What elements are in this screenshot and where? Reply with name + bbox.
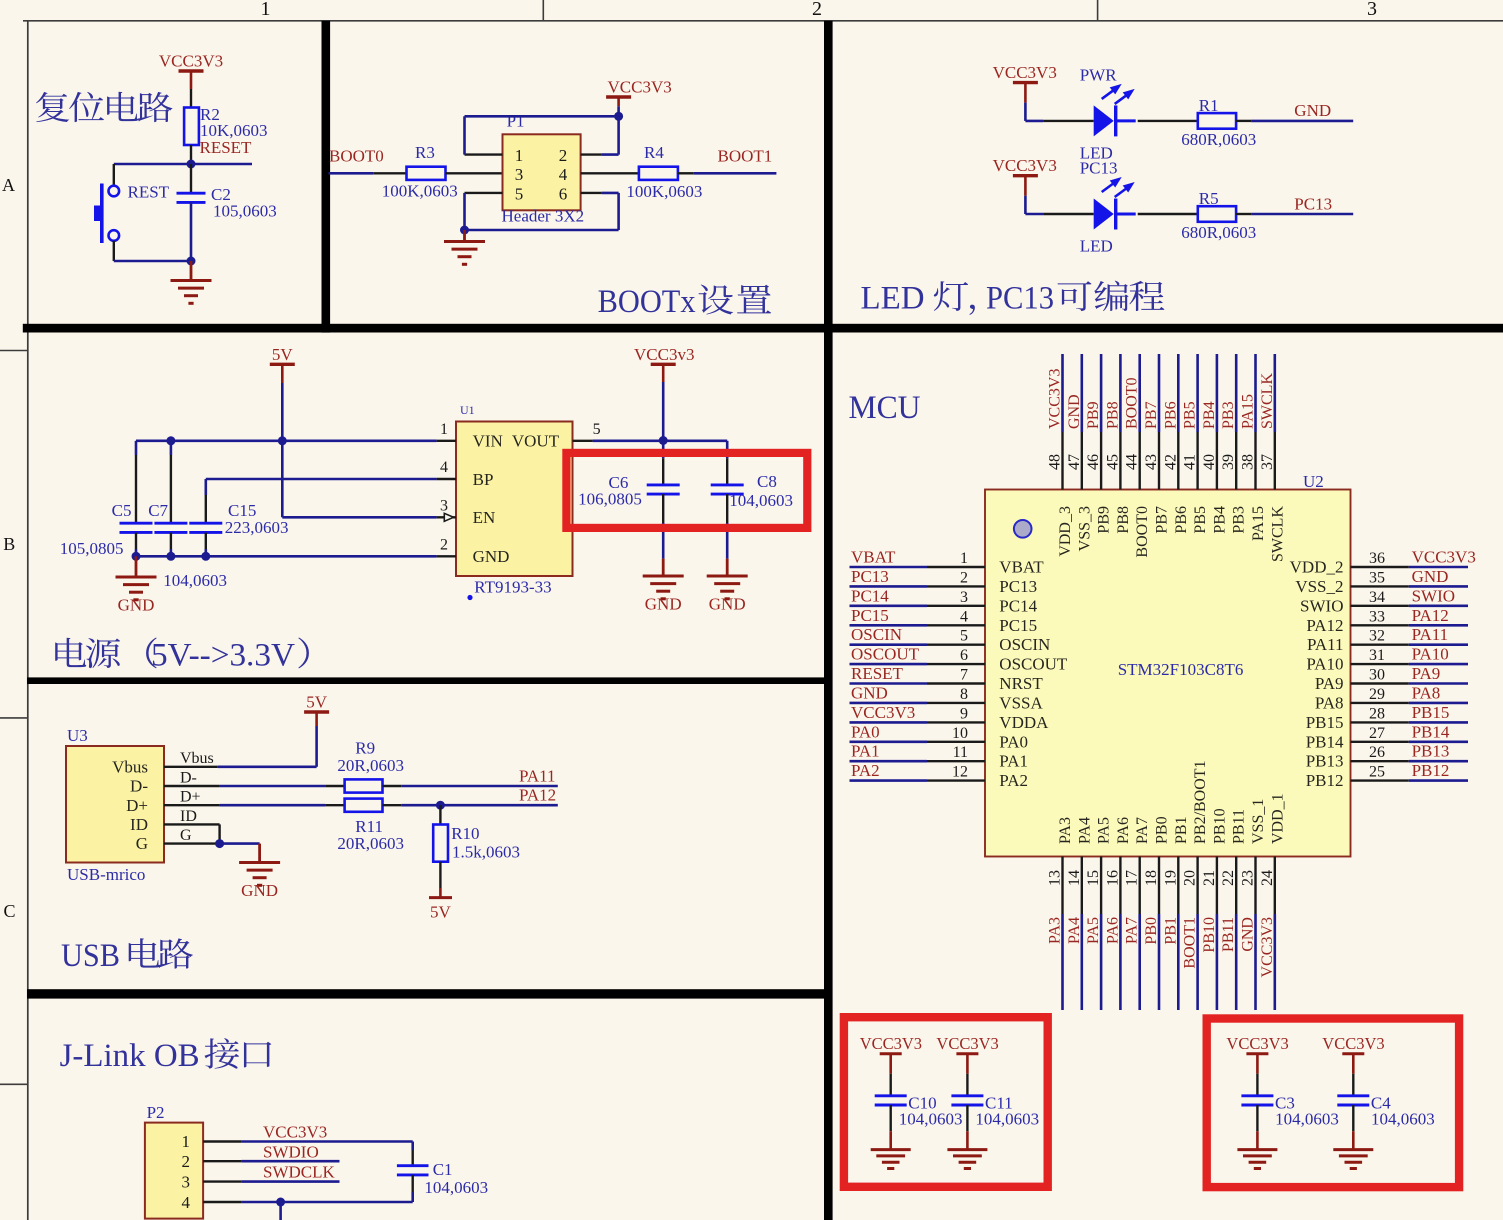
svg-text:Vbus: Vbus <box>112 757 148 776</box>
wire <box>220 842 260 845</box>
svg-text:PA6: PA6 <box>1115 817 1132 844</box>
svg-text:PB7: PB7 <box>1143 401 1160 429</box>
ground (C11) <box>947 1131 987 1168</box>
svg-text:PA12: PA12 <box>519 786 556 805</box>
svg-text:BOOTx: BOOTx <box>598 284 696 320</box>
svg-text:2: 2 <box>960 569 968 586</box>
svg-text:14: 14 <box>1066 870 1083 886</box>
svg-text:PB15: PB15 <box>1412 703 1450 722</box>
svg-text:8: 8 <box>960 686 968 703</box>
capacitor C5 <box>60 441 153 558</box>
svg-text:GND: GND <box>1066 394 1083 429</box>
svg-text:680R,0603: 680R,0603 <box>1181 223 1256 242</box>
wire net PA8 (right pin 29) <box>1351 702 1469 704</box>
svg-text:GND: GND <box>851 683 888 702</box>
svg-text:VCC3V3: VCC3V3 <box>1259 917 1276 977</box>
svg-text:OSCOUT: OSCOUT <box>851 645 920 664</box>
svg-text:PA1: PA1 <box>999 752 1028 771</box>
svg-text:18: 18 <box>1143 870 1160 886</box>
svg-text:GND: GND <box>241 881 278 900</box>
wire <box>190 89 192 108</box>
svg-text:17: 17 <box>1124 870 1141 886</box>
svg-text:PC15: PC15 <box>999 616 1037 635</box>
resistor R4 <box>626 143 702 201</box>
svg-text:PB7: PB7 <box>1154 506 1171 534</box>
svg-text:VCC3V3: VCC3V3 <box>1322 1034 1384 1053</box>
svg-text:C8: C8 <box>757 472 777 491</box>
svg-text:PB4: PB4 <box>1201 401 1218 429</box>
svg-text:PA8: PA8 <box>1412 683 1441 702</box>
wire net GND (bottom pin 23) <box>1254 857 1256 1011</box>
svg-text:J-Link OB: J-Link OB <box>60 1038 200 1074</box>
svg-text:4: 4 <box>182 1193 191 1212</box>
wire net PB6 (top pin 42) <box>1177 354 1180 490</box>
svg-text:21: 21 <box>1201 870 1218 886</box>
wire net VCC3V3 (top pin 48) <box>1061 354 1064 490</box>
svg-text:G: G <box>180 827 192 844</box>
wire PC13 <box>1251 213 1353 216</box>
svg-text:VDD_2: VDD_2 <box>1290 558 1344 577</box>
svg-text:PB15: PB15 <box>1306 713 1344 732</box>
svg-text:PB12: PB12 <box>1412 761 1450 780</box>
svg-text:PB14: PB14 <box>1306 732 1344 751</box>
svg-text:ID: ID <box>130 815 148 834</box>
svg-text:PA1: PA1 <box>851 742 880 761</box>
svg-text:VSS_3: VSS_3 <box>1076 506 1093 551</box>
svg-text:SWCLK: SWCLK <box>1269 506 1286 562</box>
svg-text:Vbus: Vbus <box>180 750 214 767</box>
junction <box>460 226 469 235</box>
resistor R9 <box>337 739 404 793</box>
svg-text:40: 40 <box>1201 454 1218 470</box>
svg-text:PB10: PB10 <box>1201 917 1218 953</box>
svg-text:OSCIN: OSCIN <box>999 635 1050 654</box>
svg-text:28: 28 <box>1369 705 1385 722</box>
svg-text:VCC3v3: VCC3v3 <box>634 345 694 364</box>
svg-text:SWDCLK: SWDCLK <box>263 1163 336 1182</box>
svg-text:38: 38 <box>1240 454 1257 470</box>
wire <box>1236 213 1251 215</box>
wire net VCC3V3 (right pin 36) <box>1351 566 1469 568</box>
svg-text:VSS_2: VSS_2 <box>1295 577 1343 596</box>
svg-text:42: 42 <box>1162 454 1179 470</box>
power VCC3v3 (B) <box>634 345 694 441</box>
svg-text:1: 1 <box>960 550 968 567</box>
wire net PB15 (right pin 28) <box>1351 721 1469 723</box>
wire net PA11 (right pin 32) <box>1351 644 1469 646</box>
svg-text:1: 1 <box>515 146 524 165</box>
wire net PB11 (bottom pin 22) <box>1235 857 1237 1011</box>
svg-text:U1: U1 <box>460 403 475 417</box>
wire <box>1043 213 1094 215</box>
svg-text:PB0: PB0 <box>1143 917 1160 945</box>
svg-text:3: 3 <box>182 1173 191 1192</box>
section divider vertical top <box>322 21 331 333</box>
svg-text:SWIO: SWIO <box>1412 586 1455 605</box>
wire GND <box>1251 120 1353 123</box>
svg-text:VCC3V3: VCC3V3 <box>1047 369 1064 429</box>
svg-text:GND: GND <box>118 596 155 615</box>
junction <box>215 839 224 848</box>
wire net VCC3V3 (left pin 9) <box>850 721 986 724</box>
svg-text:PA10: PA10 <box>1306 655 1343 674</box>
junction <box>276 1198 285 1207</box>
wire PA12 <box>383 804 558 806</box>
power VCC3V3 (C11) <box>936 1034 998 1074</box>
wire SWDCLK <box>241 1180 339 1183</box>
wire VCC3V3 <box>241 1140 412 1143</box>
svg-text:PB11: PB11 <box>1231 809 1248 844</box>
header P2 <box>145 1103 203 1219</box>
header P1 <box>502 112 585 226</box>
svg-text:26: 26 <box>1369 744 1385 761</box>
junction <box>187 257 196 266</box>
wire net SWIO (right pin 34) <box>1351 605 1469 607</box>
wire net PA4 (bottom pin 14) <box>1081 857 1083 1011</box>
svg-text:REST: REST <box>128 183 170 202</box>
resistor R5 <box>1181 189 1256 242</box>
junction <box>201 552 210 561</box>
junction <box>278 436 287 445</box>
svg-text:PB2/BOOT1: PB2/BOOT1 <box>1192 760 1209 844</box>
wire top rail <box>136 439 437 442</box>
svg-text:PA3: PA3 <box>1057 817 1074 844</box>
svg-text:VCC3V3: VCC3V3 <box>936 1034 998 1053</box>
svg-text:BOOT0: BOOT0 <box>1124 377 1141 429</box>
wire <box>373 172 406 174</box>
svg-text:PA2: PA2 <box>999 771 1028 790</box>
title USB电路 <box>61 938 193 974</box>
svg-text:R10: R10 <box>451 824 479 843</box>
power VCC3V3 (boot) <box>606 78 672 117</box>
wire down <box>279 1202 282 1220</box>
wire net PB8 (top pin 45) <box>1119 354 1122 490</box>
svg-text:A: A <box>2 175 15 195</box>
IC U3 USB-mrico <box>66 726 164 884</box>
svg-text:PA2: PA2 <box>851 761 880 780</box>
svg-text:Header 3X2: Header 3X2 <box>502 207 585 226</box>
svg-text:PA5: PA5 <box>1085 917 1102 944</box>
svg-text:GND: GND <box>1294 101 1331 120</box>
svg-text:3: 3 <box>440 498 448 515</box>
svg-text:13: 13 <box>1047 870 1064 886</box>
title LED灯，PC13可编程 <box>861 281 1165 317</box>
svg-text:PA0: PA0 <box>999 732 1028 751</box>
svg-text:PC13: PC13 <box>999 577 1037 596</box>
svg-text:LED: LED <box>1080 237 1113 256</box>
svg-text:104,0603: 104,0603 <box>729 491 793 510</box>
svg-text:15: 15 <box>1085 870 1102 886</box>
svg-text:VCC3V3: VCC3V3 <box>993 156 1057 175</box>
svg-text:2: 2 <box>182 1152 191 1171</box>
svg-text:PA7: PA7 <box>1124 917 1141 944</box>
wire net VCC3V3 (bottom pin 24) <box>1274 857 1276 1011</box>
svg-text:9: 9 <box>960 705 968 722</box>
wire net PA7 (bottom pin 17) <box>1138 857 1140 1011</box>
svg-text:VCC3V3: VCC3V3 <box>608 78 672 97</box>
svg-text:PA7: PA7 <box>1134 817 1151 844</box>
svg-text:1.5k,0603: 1.5k,0603 <box>452 843 520 862</box>
ground (C5 rail) <box>116 556 157 614</box>
svg-text:PB11: PB11 <box>1220 917 1237 952</box>
wire vcc loop <box>465 116 619 154</box>
wire net PC14 (left pin 3) <box>850 604 986 607</box>
svg-text:OSCIN: OSCIN <box>851 625 902 644</box>
wire <box>190 202 193 261</box>
svg-text:VCC3V3: VCC3V3 <box>263 1123 327 1142</box>
svg-text:20R,0603: 20R,0603 <box>337 834 404 853</box>
wire net PB9 (top pin 46) <box>1100 354 1103 490</box>
svg-text:12: 12 <box>952 764 968 781</box>
svg-text:5: 5 <box>593 421 601 438</box>
svg-text:5V-->3.3V: 5V-->3.3V <box>151 638 295 674</box>
svg-text:D-: D- <box>180 769 197 786</box>
wire net PB10 (bottom pin 21) <box>1216 857 1218 1011</box>
svg-text:PA3: PA3 <box>1047 917 1064 944</box>
svg-text:GND: GND <box>473 547 510 566</box>
svg-text:R9: R9 <box>355 739 375 758</box>
wire net PB7 (top pin 43) <box>1158 354 1161 490</box>
svg-text:31: 31 <box>1369 647 1385 664</box>
wire D+ <box>164 804 345 806</box>
svg-text:10: 10 <box>952 725 968 742</box>
wire BP rail <box>206 479 437 495</box>
pin stubs P1 <box>465 155 639 193</box>
title 复位电路 <box>36 92 173 122</box>
svg-text:43: 43 <box>1143 454 1160 470</box>
wire net PB14 (right pin 27) <box>1351 741 1469 743</box>
svg-text:R3: R3 <box>415 143 435 162</box>
ground (reset) <box>171 261 212 303</box>
svg-text:1: 1 <box>182 1132 191 1151</box>
wire <box>678 172 693 174</box>
svg-text:25: 25 <box>1369 764 1385 781</box>
svg-text:6: 6 <box>559 184 568 203</box>
svg-text:PC13: PC13 <box>851 567 889 586</box>
power VCC3V3 (C3) <box>1226 1034 1288 1074</box>
svg-text:20: 20 <box>1182 870 1199 886</box>
svg-text:PC14: PC14 <box>999 596 1037 615</box>
svg-text:104,0603: 104,0603 <box>424 1178 488 1197</box>
wire <box>1025 120 1043 123</box>
wire net SWCLK (top pin 37) <box>1274 354 1277 490</box>
svg-text:PB8: PB8 <box>1115 506 1132 534</box>
svg-text:34: 34 <box>1369 589 1385 606</box>
svg-text:R1: R1 <box>1199 96 1219 115</box>
section divider horizontal mid-left <box>27 677 828 684</box>
svg-text:PB5: PB5 <box>1192 506 1209 534</box>
capacitor C8 <box>711 441 793 559</box>
svg-text:PB3: PB3 <box>1231 506 1248 534</box>
svg-text:GND: GND <box>1240 917 1257 952</box>
wire net GND (top pin 47) <box>1081 354 1084 490</box>
svg-text:37: 37 <box>1259 454 1276 470</box>
svg-text:VOUT: VOUT <box>512 432 560 451</box>
wire net PA2 (left pin 12) <box>850 779 986 782</box>
svg-text:39: 39 <box>1220 454 1237 470</box>
svg-text:PC13: PC13 <box>1294 194 1332 213</box>
svg-text:106,0805: 106,0805 <box>578 490 642 509</box>
svg-text:5: 5 <box>515 184 524 203</box>
power VCC3V3 (C10) <box>860 1034 922 1074</box>
svg-text:PA15: PA15 <box>1240 394 1257 429</box>
svg-text:D-: D- <box>130 777 148 796</box>
svg-text:PC15: PC15 <box>851 606 889 625</box>
svg-text:VSS_1: VSS_1 <box>1250 799 1267 844</box>
svg-text:C1: C1 <box>433 1160 453 1179</box>
title BOOTx设置 <box>598 284 771 320</box>
power VCC3V3 (C4) <box>1322 1034 1384 1074</box>
svg-text:680R,0603: 680R,0603 <box>1181 130 1256 149</box>
EN arrow <box>444 513 453 521</box>
highlight box C6 C8 <box>566 453 807 528</box>
wire net OSCOUT (left pin 6) <box>850 663 986 666</box>
svg-text:VCC3V3: VCC3V3 <box>860 1034 922 1053</box>
svg-text:105,0603: 105,0603 <box>213 202 277 221</box>
ground (boot) <box>444 230 485 264</box>
svg-text:SWCLK: SWCLK <box>1259 373 1276 429</box>
wire net RESET (left pin 7) <box>850 682 986 685</box>
svg-text:PA11: PA11 <box>1307 635 1344 654</box>
svg-text:PB6: PB6 <box>1162 401 1179 429</box>
resistor R1 <box>1181 96 1256 149</box>
svg-text:PC13: PC13 <box>986 281 1054 317</box>
svg-text:PB8: PB8 <box>1104 401 1121 429</box>
svg-text:104,0603: 104,0603 <box>163 571 227 590</box>
wire net PB3 (top pin 39) <box>1235 354 1238 490</box>
wire Vbus <box>164 766 317 768</box>
pin stubs U1 <box>437 441 593 557</box>
svg-text:3: 3 <box>1367 0 1377 20</box>
wire net BOOT0 (top pin 44) <box>1138 354 1141 490</box>
wire net GND (right pin 35) <box>1351 585 1469 587</box>
svg-text:GND: GND <box>709 595 746 614</box>
svg-text:SWDIO: SWDIO <box>263 1142 319 1161</box>
ground (C10) <box>871 1131 911 1168</box>
power 5V (usb) <box>304 693 329 767</box>
junction <box>166 436 175 445</box>
ground (C8) <box>707 559 748 614</box>
power VCC3V3 (reset) <box>159 52 223 90</box>
svg-text:R5: R5 <box>1199 189 1219 208</box>
svg-text:OSCOUT: OSCOUT <box>999 655 1068 674</box>
wire net PA6 (bottom pin 16) <box>1119 857 1121 1011</box>
power 5V (R10 down) <box>429 862 452 922</box>
section divider vertical main <box>824 21 833 1220</box>
svg-text:PB13: PB13 <box>1306 752 1344 771</box>
svg-text:VBAT: VBAT <box>999 558 1044 577</box>
svg-text:5V: 5V <box>430 903 452 922</box>
wire <box>1043 120 1094 122</box>
svg-text:PB1: PB1 <box>1173 816 1190 844</box>
wire <box>1025 213 1043 216</box>
capacitor C10 <box>875 1074 963 1132</box>
wire BOOT0 <box>329 172 374 175</box>
wire net PB5 (top pin 41) <box>1196 354 1199 490</box>
svg-text:5: 5 <box>960 628 968 645</box>
highlight box C10 C11 <box>844 1017 1048 1187</box>
svg-text:5V: 5V <box>306 693 328 712</box>
svg-text:PWR: PWR <box>1080 65 1118 84</box>
svg-text:RESET: RESET <box>200 138 253 157</box>
svg-text:PA4: PA4 <box>1066 917 1083 944</box>
svg-text:RESET: RESET <box>851 664 904 683</box>
svg-text:PA10: PA10 <box>1412 645 1449 664</box>
svg-text:2: 2 <box>440 537 448 554</box>
svg-text:24: 24 <box>1259 870 1276 886</box>
capacitor C2 <box>177 185 277 221</box>
svg-text:USB-mrico: USB-mrico <box>67 865 145 884</box>
svg-text:PB14: PB14 <box>1412 722 1450 741</box>
svg-text:46: 46 <box>1085 454 1102 470</box>
svg-text:PA5: PA5 <box>1096 817 1113 844</box>
svg-text:PA12: PA12 <box>1412 606 1449 625</box>
svg-text:105,0805: 105,0805 <box>60 539 124 558</box>
svg-text:MCU: MCU <box>849 390 921 426</box>
svg-text:23: 23 <box>1240 870 1257 886</box>
IC U2 STM32F103C8T6 <box>985 472 1351 857</box>
svg-text:7: 7 <box>960 667 968 684</box>
svg-text:30: 30 <box>1369 667 1385 684</box>
svg-text:BP: BP <box>473 470 494 489</box>
svg-text:11: 11 <box>953 744 968 761</box>
svg-text:1: 1 <box>440 421 448 438</box>
svg-text:D+: D+ <box>180 789 201 806</box>
svg-text:4: 4 <box>960 608 968 625</box>
highlight box C3 C4 <box>1207 1019 1459 1188</box>
svg-text:PA11: PA11 <box>1412 625 1449 644</box>
capacitor C11 <box>951 1074 1039 1132</box>
svg-text:R4: R4 <box>644 143 664 162</box>
svg-text:G: G <box>136 834 148 853</box>
junction <box>436 801 445 810</box>
junction <box>614 112 623 121</box>
svg-text:D+: D+ <box>126 796 148 815</box>
wire <box>1138 120 1198 122</box>
IC U1 RT9193-33 <box>456 403 573 600</box>
resistor R3 <box>382 143 458 201</box>
svg-text:22: 22 <box>1220 870 1237 886</box>
capacitor C7 <box>148 441 227 590</box>
junction <box>187 160 196 169</box>
power 5V (B) <box>270 345 295 441</box>
svg-text:PB13: PB13 <box>1412 742 1450 761</box>
svg-text:PC13: PC13 <box>1080 159 1118 178</box>
svg-text:PA9: PA9 <box>1315 674 1344 693</box>
wire PA11 <box>383 785 558 787</box>
svg-text:100K,0603: 100K,0603 <box>626 182 702 201</box>
svg-text:PB3: PB3 <box>1220 401 1237 429</box>
LED PWR <box>1080 65 1136 162</box>
svg-text:PA8: PA8 <box>1315 693 1344 712</box>
svg-text:U3: U3 <box>67 726 88 745</box>
svg-text:PA11: PA11 <box>519 767 556 786</box>
svg-text:5V: 5V <box>272 345 294 364</box>
power VCC3V3 (led PWR) <box>993 63 1057 121</box>
svg-text:48: 48 <box>1047 454 1064 470</box>
svg-text:C: C <box>3 901 15 921</box>
svg-text:GND: GND <box>645 595 682 614</box>
svg-text:4: 4 <box>440 459 448 476</box>
svg-text:PC14: PC14 <box>851 586 889 605</box>
svg-text:223,0603: 223,0603 <box>225 518 289 537</box>
wire <box>114 260 191 263</box>
svg-text:PB6: PB6 <box>1173 506 1190 534</box>
svg-text:USB: USB <box>61 938 120 974</box>
svg-text:VDD_1: VDD_1 <box>1269 793 1286 844</box>
svg-text:BOOT1: BOOT1 <box>1182 917 1199 969</box>
svg-text:BOOT0: BOOT0 <box>1134 506 1151 558</box>
